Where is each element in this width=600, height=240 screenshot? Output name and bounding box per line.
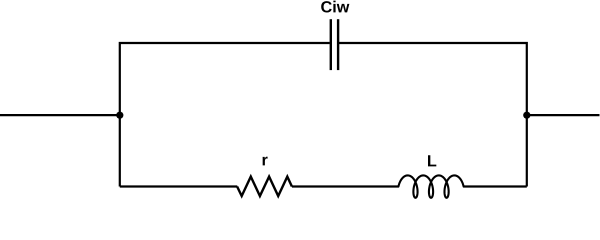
wire right terminal stub xyxy=(527,114,600,116)
capacitor value label Ciw xyxy=(321,1,349,13)
wire bottom left segment xyxy=(120,185,238,187)
junction node dot right xyxy=(523,112,530,119)
wire bottom middle segment xyxy=(292,185,399,187)
wire left terminal stub xyxy=(0,114,120,116)
resistor r zigzag body xyxy=(237,177,292,196)
capacitor Ciw plate right xyxy=(337,19,339,70)
resistor value label r xyxy=(263,157,268,166)
capacitor Ciw plate left xyxy=(330,19,332,70)
wire bottom right segment xyxy=(464,185,527,187)
inductor value label L xyxy=(428,155,436,166)
junction node dot left xyxy=(116,112,123,119)
wire upper branch left (left vertical + top-left segment to capacitor) xyxy=(120,43,330,187)
inductor L coil xyxy=(398,175,463,197)
wire upper branch right (top-right segment from capacitor + right vertical) xyxy=(338,43,527,187)
